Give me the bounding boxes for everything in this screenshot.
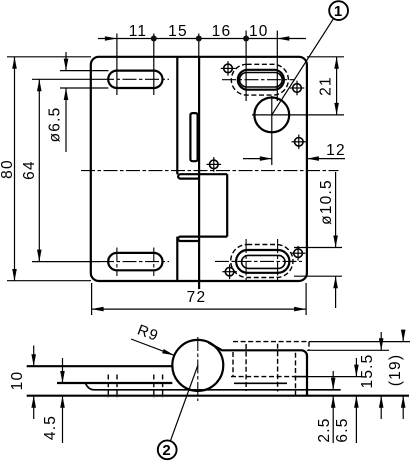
top-left slot	[108, 71, 162, 88]
svg-text:ø6.5: ø6.5	[47, 107, 64, 143]
hinge pin hole	[254, 98, 289, 133]
upper bend line pair	[178, 174, 227, 178]
side view bottom edge	[27, 395, 409, 397]
dim 19 arrows	[401, 330, 406, 342]
side view right leaf outline	[209, 343, 308, 396]
svg-text:ø10.5: ø10.5	[318, 179, 335, 225]
svg-text:10: 10	[249, 23, 269, 40]
svg-text:15.5: 15.5	[359, 354, 376, 389]
screw hole A	[224, 64, 233, 73]
svg-text:4.5: 4.5	[42, 415, 59, 440]
dim 6.5 arrows	[64, 59, 69, 71]
side view flange lower edge	[234, 382, 287, 384]
top dim left arrow	[105, 36, 117, 41]
right leaf left edge	[198, 57, 200, 289]
top-right boss inner	[240, 73, 283, 88]
svg-text:21: 21	[318, 76, 335, 96]
middle rectangular slot	[190, 113, 197, 161]
dim 21 extension line	[307, 56, 344, 58]
lower bend line pair	[178, 237, 227, 241]
side view flange inner solid line	[294, 376, 307, 378]
svg-text:(19): (19)	[387, 354, 404, 386]
top dim right arrow	[277, 36, 289, 41]
dim 2.5 lines	[332, 371, 334, 443]
dim 10.5 arrows	[333, 236, 338, 248]
side view hidden flange bottom	[231, 376, 294, 378]
screw hole B	[293, 84, 302, 93]
svg-text:16: 16	[212, 23, 232, 40]
side view hidden flange top	[233, 341, 309, 343]
dim 64 extension lines	[32, 79, 100, 261]
svg-text:15: 15	[168, 23, 188, 40]
bottom-right boss inner	[242, 255, 285, 268]
dim 4.5 arrows	[60, 371, 65, 383]
dim 4.5 lines	[62, 358, 64, 443]
dim 80 arrows	[12, 57, 17, 69]
side view hidden hole lines right	[246, 344, 295, 396]
screw hole D	[210, 160, 219, 169]
dim 12 line left part	[243, 158, 272, 160]
svg-text:2.5: 2.5	[316, 417, 333, 442]
svg-text:2: 2	[162, 442, 172, 459]
side view internal line	[57, 382, 172, 384]
side view top edge	[27, 365, 173, 367]
callout balloon 2	[158, 440, 177, 459]
top-right boss h-centerline	[222, 79, 295, 81]
dim 21 line	[336, 57, 338, 115]
dim 21 arrows	[334, 57, 339, 69]
top-right boss outer	[238, 70, 284, 90]
pin hole v-centerline	[271, 96, 273, 165]
bottom-right boss hidden outline	[231, 245, 293, 278]
right ext line 6.5	[307, 376, 362, 378]
step right vertical	[226, 174, 228, 236]
side view hidden flange verticals	[233, 342, 309, 377]
dim 64 arrows	[37, 79, 42, 91]
left leaf right edge top segment	[176, 57, 178, 174]
svg-text:6.5: 6.5	[334, 417, 351, 442]
left leaf right edge bottom segment	[176, 237, 178, 281]
right ext line 19	[309, 341, 410, 343]
dim 10 lines	[33, 346, 35, 420]
dim 72 arrows	[92, 307, 104, 312]
radius leader R9	[131, 339, 174, 355]
svg-text:11: 11	[129, 23, 148, 40]
svg-text:10: 10	[9, 371, 26, 391]
knuckle v-centerline	[197, 337, 199, 401]
dim 72 extension lines	[92, 283, 307, 315]
dim 2.5 arrows	[331, 378, 336, 390]
svg-text:12: 12	[326, 142, 346, 159]
dim 6.5s arrows	[354, 365, 359, 377]
dim 10.5 lines	[335, 172, 337, 308]
side view hidden hole lines left	[108, 375, 162, 398]
pin hole h-centerline	[252, 114, 344, 116]
side view step line	[86, 384, 341, 390]
top-right boss hidden outline	[231, 64, 288, 95]
dim 10.5 extension lines	[294, 248, 342, 277]
callout leader 2	[170, 365, 198, 441]
dim 6.5 extension lines	[60, 71, 108, 88]
dim 19 lines	[402, 330, 404, 419]
dim 80 extension lines	[7, 57, 91, 281]
dim 10 arrows	[31, 354, 36, 366]
svg-text:64: 64	[21, 160, 38, 180]
dim 12 arrows	[260, 156, 272, 161]
callout balloon 1	[329, 1, 348, 20]
bottom-right boss h-centerline	[215, 260, 302, 262]
screw hole F	[225, 267, 234, 276]
callout leader 1	[272, 18, 334, 115]
bottom-left slot vertical centerlines	[117, 248, 154, 277]
svg-text:1: 1	[334, 3, 344, 20]
dim 72 line	[92, 308, 307, 310]
top dim extension lines	[117, 31, 277, 102]
dim 6.5s lines	[355, 358, 357, 443]
top dim line	[98, 38, 306, 40]
top dim tick dots	[151, 36, 249, 42]
dim 64 line	[38, 79, 40, 261]
svg-text:80: 80	[0, 159, 16, 179]
bottom-right boss outer	[236, 250, 289, 273]
screw hole E	[294, 249, 303, 258]
svg-text:72: 72	[187, 289, 207, 306]
bottom-right boss v-centerlines	[246, 239, 278, 283]
radius leader R9 arrow	[162, 349, 174, 355]
plate outline	[91, 57, 307, 281]
top-left slot centerline	[100, 78, 169, 80]
dim 15.5 arrows	[379, 338, 384, 350]
dim 12 line right part	[307, 158, 345, 160]
knuckle circle R9	[172, 340, 223, 391]
screw hole C	[295, 138, 304, 147]
horizontal centerline	[81, 170, 339, 172]
bottom-left slot centerline	[100, 261, 169, 263]
dim 15.5 lines	[380, 332, 382, 419]
dim 6.5 lines	[65, 52, 67, 152]
bottom-left slot	[108, 253, 162, 270]
right ext line 15.5	[307, 349, 389, 351]
dim 80 line	[14, 57, 16, 281]
